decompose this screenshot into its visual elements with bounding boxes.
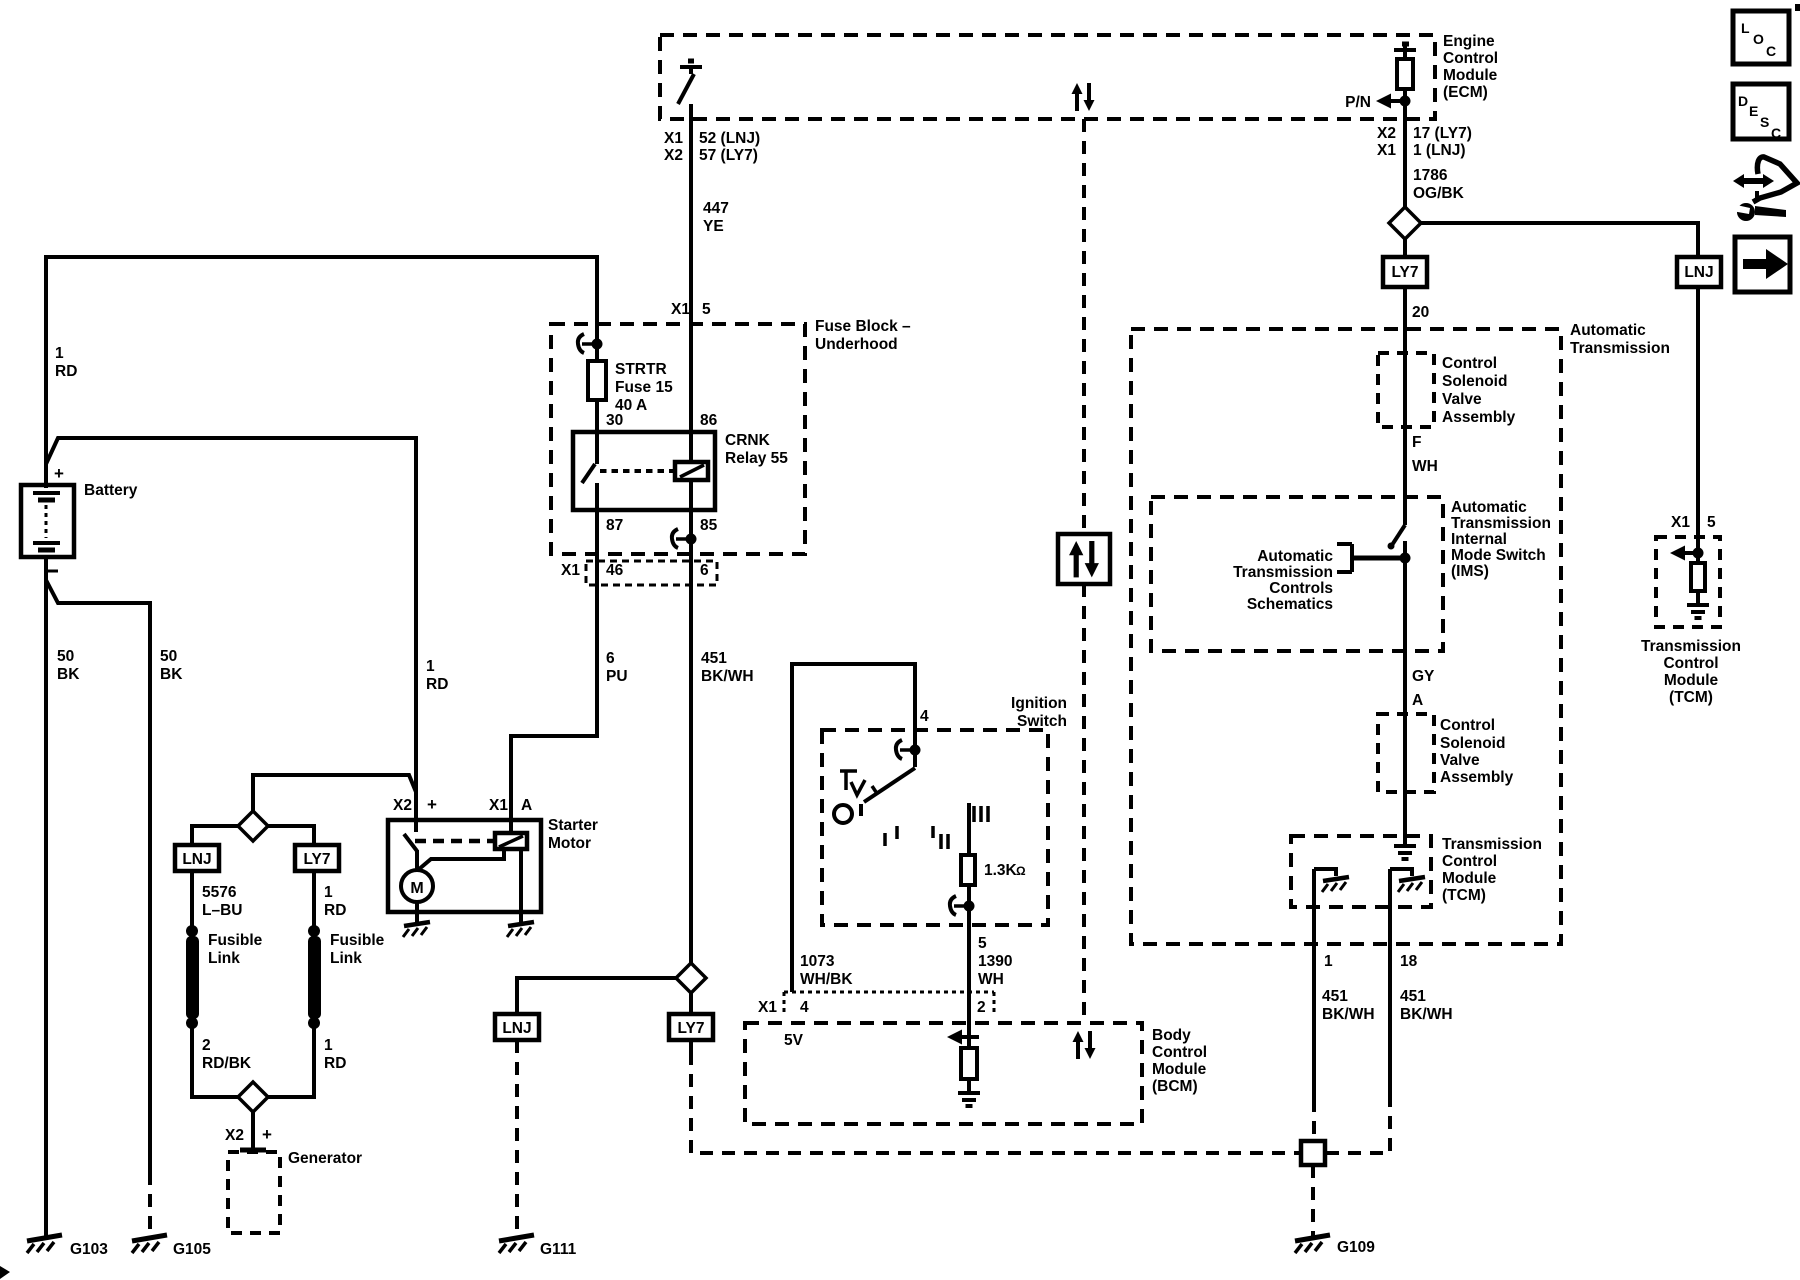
svg-text:(TCM): (TCM)	[1669, 689, 1713, 706]
svg-text:X1: X1	[1377, 142, 1396, 159]
svg-text:5: 5	[978, 935, 987, 952]
svg-text:18: 18	[1400, 953, 1418, 970]
svg-text:50: 50	[57, 648, 74, 665]
svg-text:Control: Control	[1440, 717, 1495, 734]
svg-text:Control: Control	[1442, 853, 1497, 870]
svg-text:WH/BK: WH/BK	[800, 971, 853, 988]
svg-text:Ignition: Ignition	[1011, 695, 1067, 712]
svg-text:G103: G103	[70, 1241, 108, 1258]
svg-text:(IMS): (IMS)	[1451, 563, 1489, 580]
svg-text:Body: Body	[1152, 1027, 1191, 1044]
svg-text:E: E	[1749, 103, 1758, 119]
svg-text:BK/WH: BK/WH	[1400, 1006, 1453, 1023]
svg-text:1073: 1073	[800, 953, 835, 970]
svg-text:BK/WH: BK/WH	[701, 668, 754, 685]
svg-text:57 (LY7): 57 (LY7)	[699, 147, 758, 164]
svg-text:G109: G109	[1337, 1239, 1375, 1256]
svg-text:BK: BK	[57, 666, 80, 683]
svg-text:Assembly: Assembly	[1440, 769, 1514, 786]
svg-text:2: 2	[202, 1037, 211, 1054]
svg-text:A: A	[1412, 692, 1423, 709]
svg-text:Battery: Battery	[84, 482, 138, 499]
svg-text:M: M	[410, 880, 423, 897]
svg-text:5: 5	[1707, 514, 1716, 531]
svg-text:YE: YE	[703, 218, 724, 235]
svg-text:C: C	[1766, 43, 1776, 59]
svg-text:(ECM): (ECM)	[1443, 84, 1488, 101]
svg-text:X1: X1	[489, 797, 508, 814]
svg-text:1: 1	[55, 345, 64, 362]
svg-text:STRTR: STRTR	[615, 361, 667, 378]
svg-text:Fusible: Fusible	[330, 932, 385, 949]
svg-text:86: 86	[700, 412, 718, 429]
svg-text:A: A	[521, 797, 532, 814]
svg-text:BK/WH: BK/WH	[1322, 1006, 1375, 1023]
svg-text:Relay 55: Relay 55	[725, 450, 788, 467]
svg-text:WH: WH	[978, 971, 1004, 988]
svg-text:6: 6	[606, 650, 615, 667]
svg-text:451: 451	[1400, 988, 1426, 1005]
svg-text:F: F	[1412, 434, 1421, 451]
svg-text:Starter: Starter	[548, 817, 598, 834]
svg-text:Module: Module	[1664, 672, 1719, 689]
svg-text:Solenoid: Solenoid	[1440, 735, 1505, 752]
svg-text:+: +	[54, 464, 64, 483]
svg-text:Fuse 15: Fuse 15	[615, 379, 673, 396]
svg-text:RD/BK: RD/BK	[202, 1055, 252, 1072]
svg-text:2: 2	[977, 999, 986, 1016]
svg-text:LNJ: LNJ	[1684, 264, 1713, 281]
svg-text:5V: 5V	[784, 1032, 804, 1049]
svg-text:Transmission: Transmission	[1451, 515, 1551, 532]
svg-text:Solenoid: Solenoid	[1442, 373, 1507, 390]
svg-text:447: 447	[703, 200, 729, 217]
svg-text:X1: X1	[1671, 514, 1690, 531]
svg-text:GY: GY	[1412, 668, 1435, 685]
svg-text:1390: 1390	[978, 953, 1012, 970]
svg-text:Control: Control	[1442, 355, 1497, 372]
svg-text:Ω: Ω	[1016, 864, 1026, 878]
svg-text:LNJ: LNJ	[502, 1020, 531, 1037]
svg-text:Valve: Valve	[1442, 391, 1482, 408]
svg-text:52 (LNJ): 52 (LNJ)	[699, 130, 760, 147]
svg-text:LNJ: LNJ	[182, 851, 211, 868]
svg-text:X1: X1	[561, 562, 580, 579]
svg-text:87: 87	[606, 517, 623, 534]
svg-text:451: 451	[1322, 988, 1348, 1005]
svg-text:X1: X1	[664, 130, 683, 147]
svg-text:Transmission: Transmission	[1570, 340, 1670, 357]
svg-text:Internal: Internal	[1451, 531, 1507, 548]
svg-text:Link: Link	[208, 950, 240, 967]
svg-text:Mode Switch: Mode Switch	[1451, 547, 1546, 564]
svg-text:1: 1	[426, 658, 435, 675]
svg-text:4: 4	[920, 708, 929, 725]
svg-text:1: 1	[324, 1037, 333, 1054]
svg-text:Motor: Motor	[548, 835, 591, 852]
svg-text:30: 30	[606, 412, 623, 429]
svg-text:WH: WH	[1412, 458, 1438, 475]
svg-text:PU: PU	[606, 668, 628, 685]
svg-text:RD: RD	[426, 676, 448, 693]
svg-text:1: 1	[324, 884, 333, 901]
svg-text:Control: Control	[1443, 50, 1498, 67]
svg-text:P/N: P/N	[1345, 94, 1371, 111]
svg-text:Fusible: Fusible	[208, 932, 263, 949]
svg-text:(BCM): (BCM)	[1152, 1078, 1198, 1095]
svg-text:Transmission: Transmission	[1442, 836, 1542, 853]
svg-text:C: C	[1771, 125, 1781, 141]
svg-text:LY7: LY7	[303, 851, 330, 868]
svg-text:LY7: LY7	[1391, 264, 1418, 281]
svg-text:RD: RD	[55, 363, 77, 380]
svg-text:X2: X2	[664, 147, 683, 164]
svg-text:Assembly: Assembly	[1442, 409, 1516, 426]
svg-text:50: 50	[160, 648, 177, 665]
svg-text:Generator: Generator	[288, 1150, 362, 1167]
svg-text:L–BU: L–BU	[202, 902, 242, 919]
svg-text:1.3K: 1.3K	[984, 862, 1018, 879]
svg-text:Valve: Valve	[1440, 752, 1480, 769]
svg-text:6: 6	[700, 562, 709, 579]
svg-text:85: 85	[700, 517, 718, 534]
svg-text:Transmission: Transmission	[1641, 638, 1741, 655]
svg-text:20: 20	[1412, 304, 1429, 321]
svg-text:5: 5	[702, 301, 711, 318]
svg-text:Engine: Engine	[1443, 33, 1495, 50]
svg-text:Underhood: Underhood	[815, 336, 898, 353]
svg-text:Link: Link	[330, 950, 362, 967]
svg-text:Fuse Block –: Fuse Block –	[815, 318, 911, 335]
svg-text:Transmission: Transmission	[1233, 564, 1333, 581]
svg-text:LY7: LY7	[677, 1020, 704, 1037]
svg-text:451: 451	[701, 650, 727, 667]
svg-text:(TCM): (TCM)	[1442, 887, 1486, 904]
svg-text:BK: BK	[160, 666, 183, 683]
svg-text:X2: X2	[393, 797, 412, 814]
svg-text:+: +	[427, 795, 437, 814]
svg-text:Control: Control	[1663, 655, 1718, 672]
svg-text:1 (LNJ): 1 (LNJ)	[1413, 142, 1466, 159]
svg-text:X2: X2	[225, 1127, 244, 1144]
svg-text:Control: Control	[1152, 1044, 1207, 1061]
svg-text:RD: RD	[324, 1055, 346, 1072]
svg-text:17 (LY7): 17 (LY7)	[1413, 125, 1472, 142]
svg-text:Schematics: Schematics	[1247, 596, 1333, 613]
svg-text:Automatic: Automatic	[1451, 499, 1527, 516]
svg-text:CRNK: CRNK	[725, 432, 771, 449]
svg-text:1: 1	[1324, 953, 1333, 970]
svg-text:RD: RD	[324, 902, 346, 919]
svg-text:L: L	[1741, 20, 1750, 36]
svg-text:X1: X1	[671, 301, 690, 318]
svg-text:1786: 1786	[1413, 167, 1448, 184]
svg-text:46: 46	[606, 562, 624, 579]
svg-text:S: S	[1760, 114, 1769, 130]
svg-text:+: +	[262, 1125, 272, 1144]
svg-text:G111: G111	[540, 1241, 577, 1258]
svg-text:5576: 5576	[202, 884, 237, 901]
svg-text:Module: Module	[1443, 67, 1498, 84]
svg-text:O: O	[1753, 31, 1764, 47]
svg-text:4: 4	[800, 999, 809, 1016]
svg-text:Switch: Switch	[1017, 713, 1067, 730]
svg-text:Module: Module	[1152, 1061, 1207, 1078]
svg-text:X1: X1	[758, 999, 777, 1016]
svg-text:Automatic: Automatic	[1570, 322, 1646, 339]
svg-text:G105: G105	[173, 1241, 211, 1258]
svg-text:Module: Module	[1442, 870, 1497, 887]
svg-text:Controls: Controls	[1269, 580, 1333, 597]
svg-text:Automatic: Automatic	[1257, 548, 1333, 565]
svg-text:OG/BK: OG/BK	[1413, 185, 1465, 202]
svg-text:D: D	[1738, 93, 1748, 109]
svg-text:X2: X2	[1377, 125, 1396, 142]
